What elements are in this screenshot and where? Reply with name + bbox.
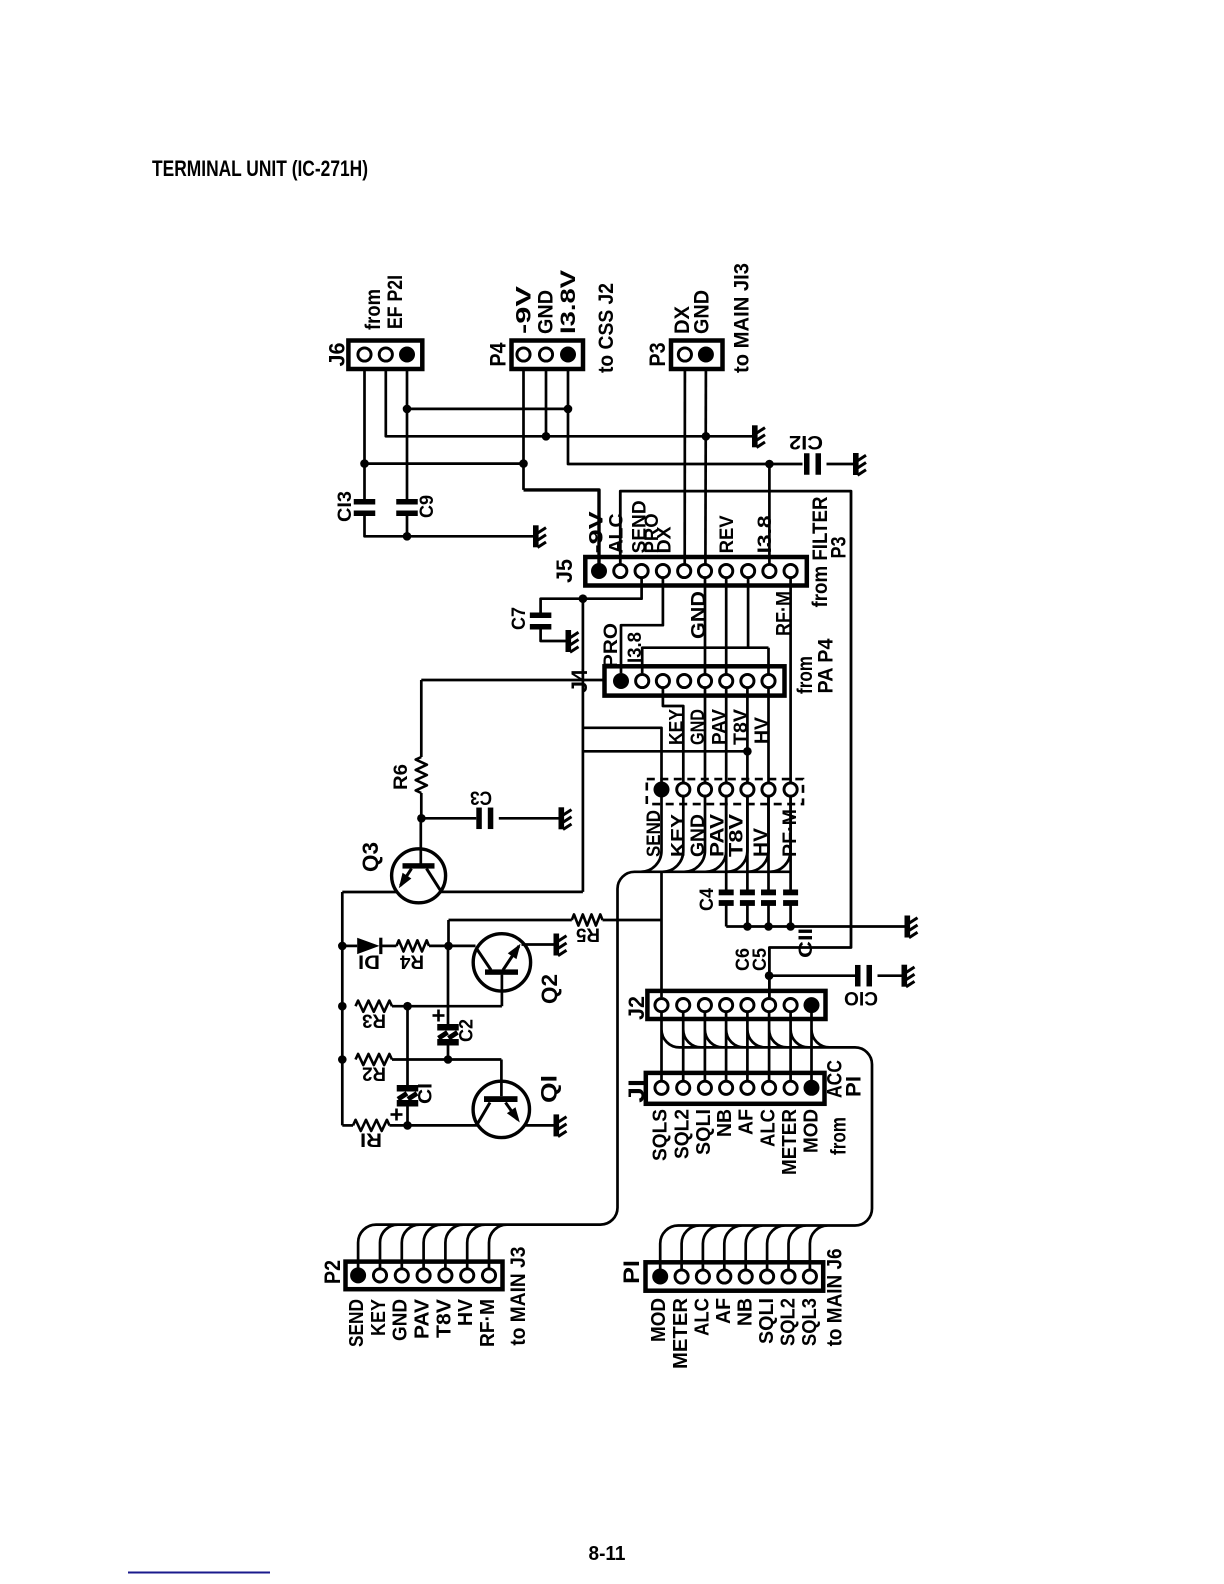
resistor R4 <box>397 940 430 951</box>
P1 pin 7 <box>782 1270 795 1283</box>
wire 13.8 link J6 pin3 to P4 pin3 <box>407 408 568 411</box>
wire RF-M J5 pin10 to dashed PF-M <box>789 578 792 783</box>
P2 pin 4 <box>417 1269 430 1282</box>
footer blue line <box>128 1572 270 1574</box>
svg-text:RF·M: RF·M <box>477 1299 499 1347</box>
wire C10 right <box>878 974 902 977</box>
svg-text:REV: REV <box>717 515 738 553</box>
svg-text:C3: C3 <box>470 787 492 808</box>
wire R3 to Q2 base <box>392 1005 502 1008</box>
connector J6 <box>348 341 422 370</box>
dashed pin PF-M <box>784 783 797 796</box>
svg-text:PAV: PAV <box>710 709 731 745</box>
svg-text:SEND: SEND <box>346 1299 368 1347</box>
svg-text:GND: GND <box>691 290 714 334</box>
node GND at P3 pin2 <box>702 432 711 441</box>
node R2 left <box>338 1055 347 1064</box>
J2 pin 1 <box>655 999 668 1012</box>
connector J2 <box>647 991 825 1019</box>
cable bundle dashed to P2 <box>358 796 790 1269</box>
node C6 bus <box>743 922 752 931</box>
svg-text:-9V: -9V <box>587 511 608 553</box>
dashed pin KEY <box>677 783 690 796</box>
wire 13.8 J4 link <box>642 648 768 673</box>
J4 pin 4 <box>678 674 691 687</box>
wire R1 to Q1 <box>390 1124 479 1127</box>
svg-text:ALC: ALC <box>607 513 628 553</box>
node -9V at J6 pin1 <box>360 459 369 468</box>
P1 pin 3 <box>696 1270 709 1283</box>
capacitor C5 <box>761 890 776 896</box>
J4 pin 5 <box>698 674 711 687</box>
P1 pin 6 <box>761 1270 774 1283</box>
wire P4 pin2 down <box>545 369 548 436</box>
P4 pin 3 13.8V <box>560 347 576 363</box>
wire C2 vertical <box>447 946 450 1024</box>
J1 pin 4 <box>720 1081 733 1094</box>
node ALC C10 junction <box>765 971 774 980</box>
capacitor C7 <box>530 613 552 619</box>
J2 pin 3 <box>698 999 711 1012</box>
wire PAV cap riser <box>725 796 728 890</box>
P4 pin 1 -9V <box>517 348 530 361</box>
svg-text:R6: R6 <box>391 764 412 790</box>
svg-text:GND: GND <box>390 1299 412 1341</box>
node 13.8 at J5 pin9 riser <box>765 460 774 469</box>
J5 pin 4 <box>656 564 669 577</box>
svg-text:T8V: T8V <box>731 709 752 745</box>
svg-text:to CSS J2: to CSS J2 <box>595 283 618 373</box>
wire T8V below J4 <box>746 687 749 782</box>
J6 pin 2 <box>379 348 392 361</box>
svg-text:8-11: 8-11 <box>589 1543 626 1565</box>
svg-text:from: from <box>362 289 385 330</box>
J5 pin 7 <box>720 564 733 577</box>
svg-text:GND: GND <box>688 709 709 745</box>
wire SEND to dashed pin1 <box>583 728 662 782</box>
connector P4 <box>512 341 584 370</box>
svg-text:MOD: MOD <box>648 1298 670 1342</box>
svg-text:T8V: T8V <box>727 814 748 857</box>
J5 pin 10 <box>784 564 797 577</box>
wire Q2 collector <box>449 945 476 948</box>
transistor Q1 <box>473 1081 529 1137</box>
ground cap bus <box>905 916 918 938</box>
node T8V Q3 <box>743 747 752 756</box>
wire Q2 base riser <box>501 975 504 1007</box>
J2 pin 2 <box>677 999 690 1012</box>
J2 pin 8 <box>804 997 820 1013</box>
J2 pin 4 <box>720 999 733 1012</box>
J1 pin 6 <box>763 1081 776 1094</box>
svg-text:I3.8: I3.8 <box>755 515 776 553</box>
wire Q1 emitter to ground <box>525 1124 554 1127</box>
svg-text:EF P2I: EF P2I <box>384 275 407 329</box>
J4 pin 3 <box>656 674 669 687</box>
node -9V at P4 pin1 <box>519 459 528 468</box>
capacitor C13 <box>354 499 376 505</box>
wire T8V cap riser <box>746 796 749 890</box>
svg-text:R4: R4 <box>400 951 424 972</box>
resistor R3 <box>356 1001 393 1012</box>
P2 pin 1 <box>350 1267 366 1283</box>
svg-text:DX: DX <box>655 526 676 553</box>
cable J2 to J1 and P1 <box>660 1012 872 1270</box>
capacitor C10 <box>855 965 861 987</box>
J6 pin 3 <box>399 347 415 363</box>
svg-text:SQL3: SQL3 <box>799 1298 821 1346</box>
svg-text:P4: P4 <box>486 342 511 367</box>
svg-text:KEY: KEY <box>669 814 690 857</box>
J4 pin 1 PRO <box>613 673 629 689</box>
wire ALC to C10 <box>769 974 855 977</box>
wire PF-M cap riser <box>789 796 792 890</box>
wire HV cap riser <box>767 796 770 890</box>
P3 pin 2 GND <box>698 347 714 363</box>
svg-text:DI: DI <box>358 951 380 972</box>
svg-text:SQL2: SQL2 <box>778 1298 800 1346</box>
svg-text:C9: C9 <box>417 495 438 518</box>
node R2 C2 <box>444 1055 453 1064</box>
svg-text:C5: C5 <box>750 948 771 971</box>
wire P4 pin3 down to 13.8 bus <box>568 369 803 464</box>
capacitor C12 <box>804 453 810 475</box>
svg-text:SQLI: SQLI <box>756 1298 778 1344</box>
svg-text:KEY: KEY <box>368 1298 390 1336</box>
svg-text:CI2: CI2 <box>789 431 823 452</box>
wire cap ground bus <box>725 901 728 927</box>
wire Q1 base riser <box>500 1060 503 1097</box>
wire P3 pin2 GND to J5 pin6 <box>704 369 707 565</box>
resistor R6 <box>416 757 427 793</box>
wire C3 left <box>421 817 476 820</box>
wire P4 pin1 down <box>522 369 525 490</box>
svg-text:NB: NB <box>735 1298 757 1326</box>
node D1 left <box>338 942 347 951</box>
plus C2 <box>433 1014 445 1017</box>
svg-text:HV: HV <box>455 1298 477 1326</box>
J1 pin 7 <box>784 1081 797 1094</box>
P2 pin 2 <box>373 1269 386 1282</box>
wire J6 pin3 to C9 <box>406 369 409 499</box>
svg-text:PRO: PRO <box>601 623 622 668</box>
wire PRO J5 pin4 to J4 pin1 <box>621 578 663 674</box>
dashed pin T8V <box>741 783 754 796</box>
svg-text:PI: PI <box>619 1260 644 1284</box>
svg-text:ALC: ALC <box>758 1109 780 1147</box>
P2 pin 7 <box>482 1269 495 1282</box>
svg-text:P3: P3 <box>645 343 670 367</box>
svg-text:to MAIN JI3: to MAIN JI3 <box>731 263 754 373</box>
wire Q3 base <box>419 818 422 864</box>
J5 pin 1 -9V <box>591 563 607 579</box>
wire C13 bottom to ground <box>365 516 534 536</box>
node R3 left <box>338 1002 347 1011</box>
wire C7 to ground <box>541 630 566 642</box>
wire C1 bottom <box>406 1106 409 1125</box>
wire C1 vertical <box>406 1006 409 1085</box>
P3 pin 1 DX <box>678 348 691 361</box>
capacitor C1 electrolytic <box>397 1085 419 1092</box>
svg-text:HV: HV <box>752 717 773 744</box>
svg-text:J5: J5 <box>552 559 577 583</box>
node SEND C7 junction <box>579 594 588 603</box>
wire ALC J5 pin2 riser <box>620 491 851 997</box>
J5 pin 5 <box>678 564 691 577</box>
wire -9V to J5 pin1 <box>524 490 600 565</box>
J1 pin 5 <box>741 1081 754 1094</box>
svg-text:GND: GND <box>535 290 558 334</box>
wire -9V bus J6 to P4 pin1 <box>365 462 524 465</box>
connector ACC header dashed <box>647 779 803 804</box>
wire GND vertical mid <box>704 578 707 675</box>
J2 pin 5 <box>741 999 754 1012</box>
node C9 ground <box>403 532 412 541</box>
node 13.8 at P4 pin3 <box>564 405 573 414</box>
svg-text:to MAIN J6: to MAIN J6 <box>824 1248 847 1346</box>
transistor Q2 <box>473 934 530 991</box>
svg-text:JI: JI <box>624 1079 649 1103</box>
ground GND bus <box>752 425 765 447</box>
svg-text:SQL2: SQL2 <box>672 1109 694 1159</box>
J6 pin 1 <box>358 348 371 361</box>
svg-text:P3: P3 <box>828 537 851 559</box>
ground Q1 <box>554 1114 567 1136</box>
P1 pin 1 <box>652 1269 668 1285</box>
wire R6 to J4 pin1 <box>421 679 604 682</box>
J5 pin 2 <box>614 564 627 577</box>
connector P2 <box>346 1262 503 1290</box>
J5 pin 6 <box>698 564 711 577</box>
svg-text:RI: RI <box>360 1129 382 1150</box>
wire C9 bottom <box>406 516 409 536</box>
plus C1 <box>391 1113 403 1116</box>
capacitor C4 <box>719 890 734 896</box>
J1 pin 1 <box>655 1081 668 1094</box>
wire J6 pin2 GND down <box>386 369 752 436</box>
svg-text:C7: C7 <box>509 607 530 630</box>
svg-text:GND: GND <box>688 591 710 639</box>
wire Q2 emitter to ground <box>522 943 554 946</box>
wire Q3 emitter left <box>342 891 398 894</box>
svg-text:METER: METER <box>779 1108 801 1175</box>
wire J4 pin3 jog to KEY <box>663 688 683 782</box>
node R6 C3 Q3 <box>417 814 426 823</box>
node C5 bus <box>764 922 773 931</box>
node R4 R5 Q2 <box>444 942 453 951</box>
svg-text:NB: NB <box>714 1109 736 1137</box>
J5 pin 8 <box>742 564 755 577</box>
svg-text:PAV: PAV <box>412 1298 434 1339</box>
wire Q3 collector right <box>440 891 583 894</box>
svg-text:P2: P2 <box>320 1260 345 1284</box>
P4 pin 2 GND <box>539 348 552 361</box>
ground Q2 <box>554 934 567 956</box>
ground C3 <box>559 807 572 829</box>
wire J6 pin1 to C13 and -9V dot <box>363 369 366 499</box>
J1 pin 3 <box>698 1081 711 1094</box>
node R3 C1 <box>403 1002 412 1011</box>
svg-text:SQLI: SQLI <box>693 1109 715 1155</box>
svg-text:AF: AF <box>736 1109 758 1135</box>
wire C2 bottom <box>447 1045 450 1060</box>
ground C7 <box>566 630 579 652</box>
wire REV PAV vertical <box>725 578 728 675</box>
capacitor C9 <box>396 499 418 505</box>
P1 pin 5 <box>739 1270 752 1283</box>
wire SEND vertical <box>582 599 585 892</box>
P1 pin 4 <box>718 1270 731 1283</box>
capacitor C3 <box>476 808 482 830</box>
svg-text:MOD: MOD <box>801 1109 823 1153</box>
J4 pin 2 <box>636 674 649 687</box>
svg-text:-9V: -9V <box>513 286 536 334</box>
svg-text:CI: CI <box>416 1083 437 1104</box>
ground C12 <box>853 453 866 475</box>
J4 pin 6 <box>720 674 733 687</box>
svg-text:CII: CII <box>796 928 817 958</box>
wire 13.8 riser to J5 pin9 <box>768 464 771 565</box>
capacitor C11 <box>783 890 798 896</box>
svg-text:to MAIN J3: to MAIN J3 <box>507 1247 530 1346</box>
J4 pin 8 <box>762 674 775 687</box>
ground C10 <box>902 965 915 987</box>
dashed pin PAV <box>720 783 733 796</box>
svg-text:AF: AF <box>713 1298 735 1324</box>
svg-text:Q2: Q2 <box>537 974 562 1004</box>
svg-text:R2: R2 <box>362 1063 386 1084</box>
J1 pin 8 <box>804 1080 820 1096</box>
svg-text:SQLS: SQLS <box>650 1109 672 1161</box>
wire J2 pin1 riser <box>660 872 663 997</box>
svg-text:CI3: CI3 <box>335 491 356 522</box>
wire HV vertical <box>767 648 770 675</box>
wire Q3 collector to T8V <box>583 750 748 753</box>
wire SEND J5 pin3 jog <box>583 578 642 599</box>
svg-text:C2: C2 <box>457 1019 478 1042</box>
svg-text:C4: C4 <box>697 888 718 911</box>
wire R1 corner <box>342 1124 353 1127</box>
node 13.8 at J6 pin3 <box>403 405 412 414</box>
dashed pin GND <box>698 783 711 796</box>
wire C12 to ground <box>827 463 854 466</box>
svg-text:METER: METER <box>670 1297 692 1369</box>
wire R6 vertical <box>420 680 423 757</box>
connector J1 <box>646 1073 825 1104</box>
ground C13 C9 <box>533 525 546 547</box>
node R1 C1 <box>403 1121 412 1130</box>
svg-text:QI: QI <box>537 1075 562 1103</box>
svg-text:CIO: CIO <box>844 987 878 1008</box>
capacitor C6 <box>740 890 755 896</box>
J2 pin 7 <box>784 999 797 1012</box>
connector P1 <box>646 1262 824 1290</box>
svg-text:J6: J6 <box>325 343 350 367</box>
diode D1 <box>357 938 379 954</box>
svg-text:TERMINAL UNIT (IC-271H): TERMINAL UNIT (IC-271H) <box>152 156 368 181</box>
svg-text:PI: PI <box>843 1076 866 1097</box>
resistor R2 <box>356 1054 393 1065</box>
wire R5 right to J2 pin1 <box>603 919 662 922</box>
svg-text:T8V: T8V <box>434 1298 456 1338</box>
svg-text:J2: J2 <box>624 996 649 1020</box>
wire C3 right <box>499 817 559 820</box>
J5 pin 9 <box>763 564 776 577</box>
svg-text:Q3: Q3 <box>358 842 383 872</box>
P1 pin 8 <box>803 1270 816 1283</box>
P2 pin 3 <box>395 1269 408 1282</box>
connector J4 <box>605 666 785 695</box>
transistor Q3 <box>392 849 446 903</box>
J5 pin 3 <box>635 564 648 577</box>
J2 pin 6 <box>763 999 776 1012</box>
svg-text:ALC: ALC <box>692 1298 714 1336</box>
J1 pin 2 <box>677 1081 690 1094</box>
J4 pin 7 <box>741 674 754 687</box>
P2 pin 6 <box>461 1269 474 1282</box>
P2 pin 5 <box>439 1269 452 1282</box>
svg-text:R3: R3 <box>362 1010 386 1031</box>
svg-text:KEY: KEY <box>667 709 688 745</box>
svg-text:R5: R5 <box>576 924 600 945</box>
connector P3 <box>671 341 723 370</box>
svg-text:PA P4: PA P4 <box>815 638 838 693</box>
wire R2 to Q1 base <box>392 1058 501 1061</box>
node C11 bus <box>786 922 795 931</box>
capacitor C2 electrolytic <box>437 1024 459 1031</box>
svg-text:I3.8V: I3.8V <box>557 270 580 334</box>
P1 pin 2 <box>675 1270 688 1283</box>
wire R5 corner down <box>447 920 450 946</box>
dashed pin SEND <box>654 782 670 798</box>
wire P3 pin1 DX to J5 pin5 <box>683 369 686 565</box>
svg-text:from: from <box>828 1117 851 1155</box>
connector J5 <box>585 557 807 586</box>
wire R5 left <box>449 919 572 922</box>
wire left bus <box>341 892 344 1125</box>
wire J5 pin8 riser <box>747 578 750 648</box>
node GND at P4 pin2 <box>542 432 551 441</box>
wire C7 riser <box>541 599 583 613</box>
dashed pin HV <box>762 783 775 796</box>
resistor R1 <box>353 1120 390 1131</box>
resistor R5 <box>572 914 603 925</box>
